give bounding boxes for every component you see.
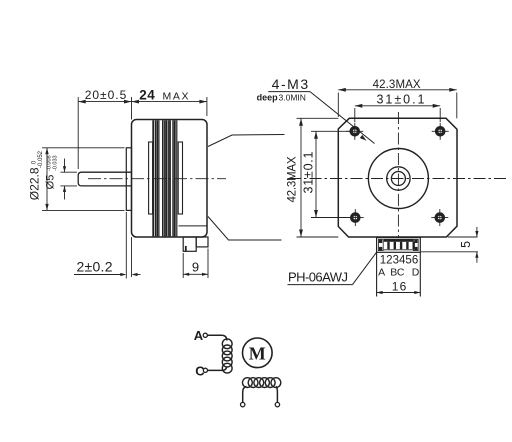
svg-text:42.3MAX: 42.3MAX [373, 79, 421, 91]
projection leader top [208, 135, 285, 147]
motor body side view [132, 120, 208, 238]
wire C to coil [208, 367, 227, 371]
dimension dia 22.8 shaft boss [42, 148, 125, 211]
shaft centerline [88, 178, 226, 180]
dimension 20±0.5 [78, 97, 131, 169]
lamination stack left edge band [149, 142, 153, 214]
wire A to coil [207, 335, 227, 340]
svg-text:A: A [378, 267, 385, 279]
svg-text:31±0.1: 31±0.1 [302, 151, 316, 193]
dimension dia 5 shaft [61, 159, 78, 200]
svg-text:-0.052: -0.052 [38, 150, 44, 168]
dimension 2±0.2 boss height [74, 212, 141, 279]
pin table left border [376, 252, 378, 296]
wire to terminal D [276, 386, 277, 402]
schematic terminal B [241, 402, 245, 406]
front view horizontal centerline [289, 178, 506, 180]
svg-text:123456: 123456 [380, 254, 419, 266]
shaft circle [391, 172, 405, 186]
svg-text:2±0.2: 2±0.2 [77, 259, 113, 275]
wire labels A BC D [378, 267, 420, 279]
front view vertical centerline [397, 112, 399, 238]
mounting hole top-right [432, 123, 449, 140]
pilot boss side view [126, 148, 131, 211]
connector pin tick [185, 246, 187, 251]
projection leader bottom [208, 217, 282, 241]
connector front view PH-06 [377, 238, 421, 253]
connector side view step [196, 237, 208, 247]
mounting hole top-left [346, 123, 363, 140]
dimension 5 connector height [421, 227, 478, 263]
mounting hole bottom-left [347, 209, 364, 226]
svg-text:42.3MAX: 42.3MAX [287, 156, 299, 202]
bearing boss circle [387, 167, 410, 190]
pilot circle [368, 149, 428, 209]
connector recess line [179, 225, 207, 227]
svg-text:5: 5 [459, 241, 473, 248]
lamination stack right edge band [178, 142, 182, 214]
callout 4-M3 tapped holes [257, 76, 375, 144]
wire to terminal B [243, 386, 247, 402]
dimension 31±0.1 horizontal [355, 106, 440, 122]
phase coil A-C [222, 339, 232, 373]
schematic terminal A [203, 333, 207, 337]
svg-text:MAX: MAX [163, 91, 189, 103]
connector side view main body [183, 237, 196, 251]
svg-text:C: C [397, 267, 405, 279]
dimension 24 MAX [132, 97, 207, 116]
svg-text:-0.033: -0.033 [53, 155, 59, 171]
svg-text:31±0.1: 31±0.1 [377, 93, 425, 107]
dimension 42.3MAX vertical [297, 118, 339, 237]
svg-text:Ø5: Ø5 [45, 175, 57, 190]
dimension 42.3MAX horizontal [338, 90, 457, 119]
svg-text:PH-06AWJ: PH-06AWJ [288, 270, 348, 285]
phase coil B-D [243, 378, 281, 388]
mounting hole bottom-right [431, 209, 448, 226]
pin table right border [419, 252, 421, 296]
svg-text:3.0MIN: 3.0MIN [279, 93, 306, 103]
front view flange outline [338, 118, 457, 237]
svg-text:A: A [194, 328, 204, 343]
lamination stack hatch lines [153, 120, 177, 236]
motor symbol M [242, 338, 272, 368]
dimension 31±0.1 vertical [311, 131, 352, 217]
shaft side view [78, 172, 131, 186]
dimension 9 connector width [183, 249, 208, 279]
svg-text:24: 24 [139, 88, 155, 103]
svg-text:deep: deep [257, 93, 279, 103]
schematic terminal D [275, 402, 279, 406]
svg-text:M: M [249, 343, 266, 363]
svg-text:9: 9 [192, 260, 199, 275]
svg-text:D: D [412, 267, 420, 279]
svg-text:16: 16 [392, 279, 407, 293]
callout PH-06AWJ connector [288, 253, 377, 285]
schematic terminal C [203, 368, 207, 372]
svg-text:20±0.5: 20±0.5 [85, 88, 127, 102]
svg-text:4-M3: 4-M3 [272, 76, 309, 92]
